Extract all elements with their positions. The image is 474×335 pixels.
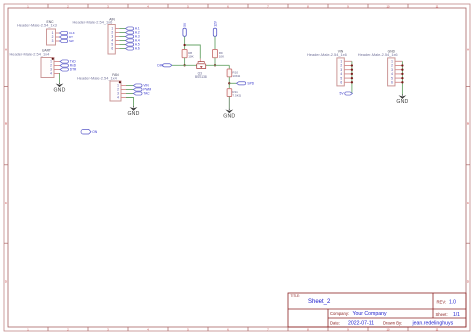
wire VIN bus bbox=[351, 61, 353, 93]
svg-text:Header-Male-2.54_1x6: Header-Male-2.54_1x6 bbox=[73, 20, 113, 25]
svg-text:Header-Male-2.54_1x3: Header-Male-2.54_1x3 bbox=[17, 23, 57, 28]
power port 5V bbox=[183, 22, 187, 36]
net flag DT bbox=[60, 35, 74, 39]
svg-text:A: A bbox=[467, 48, 469, 52]
ground GND (divider) bbox=[223, 109, 235, 120]
wire 5V rail to gate bbox=[185, 45, 201, 59]
net flag A.6 bbox=[126, 47, 140, 51]
resistor R10 bbox=[227, 69, 241, 78]
junction LV node bbox=[183, 64, 185, 66]
svg-text:GND: GND bbox=[128, 111, 140, 117]
junction VIN pin bbox=[351, 69, 353, 71]
net flag DTR bbox=[60, 68, 77, 72]
svg-text:DIR: DIR bbox=[157, 64, 163, 68]
svg-text:3: 3 bbox=[52, 39, 54, 43]
net flag PWM bbox=[133, 88, 151, 92]
svg-text:10K: 10K bbox=[219, 54, 225, 58]
wire bbox=[119, 40, 125, 42]
svg-text:REV:: REV: bbox=[437, 300, 447, 305]
junction VIN pin bbox=[351, 77, 353, 79]
net flag A.4 bbox=[126, 39, 140, 43]
svg-text:GND: GND bbox=[396, 99, 408, 105]
ground GND (header) bbox=[396, 95, 408, 106]
connector UART (Header-Male 2.54) bbox=[10, 49, 61, 78]
resistor R8 bbox=[182, 50, 195, 59]
net flag A.3 bbox=[126, 35, 140, 39]
resistor R9 bbox=[213, 50, 226, 59]
junction GND pin bbox=[401, 77, 403, 79]
svg-text:A: A bbox=[5, 48, 7, 52]
net flag SPD bbox=[237, 82, 255, 86]
ground GND (FAN) bbox=[128, 106, 140, 117]
junction GND pin bbox=[401, 73, 403, 75]
svg-text:DTR: DTR bbox=[70, 68, 77, 72]
svg-text:B: B bbox=[467, 122, 469, 126]
wire bbox=[119, 36, 125, 38]
svg-text:ON: ON bbox=[92, 130, 98, 134]
svg-text:Header-Male-2.54_1x6: Header-Male-2.54_1x6 bbox=[358, 52, 398, 57]
junction VIN pin bbox=[351, 64, 353, 66]
wire bbox=[119, 32, 125, 34]
junction divider bbox=[228, 82, 230, 84]
svg-text:Company:: Company: bbox=[330, 311, 349, 316]
net flag A.5 bbox=[126, 43, 140, 47]
net flag DIR bbox=[157, 64, 172, 68]
junction VIN pin bbox=[351, 73, 353, 75]
wire 12V rail down bbox=[214, 36, 216, 49]
connector AIN (Header-Male 2.54) bbox=[73, 18, 120, 54]
wire divider to SPD flag bbox=[229, 82, 236, 84]
net flag CLK bbox=[60, 31, 75, 35]
net flag ON bbox=[81, 129, 98, 134]
svg-text:Your Company: Your Company bbox=[353, 311, 388, 317]
title block bbox=[288, 293, 466, 327]
connector VIN (Header-Male 2.54) bbox=[307, 49, 352, 86]
svg-text:2022-07-11: 2022-07-11 bbox=[348, 320, 374, 326]
wire LV node bbox=[172, 64, 197, 66]
wire bbox=[119, 44, 125, 46]
svg-text:GND: GND bbox=[54, 87, 66, 93]
svg-text:1.0: 1.0 bbox=[449, 300, 456, 306]
wire 5V rail down bbox=[184, 36, 186, 49]
junction 5V/gate bbox=[183, 44, 185, 46]
wire R10 to divider node bbox=[228, 77, 230, 89]
svg-text:Header-Male-2.54_1x4: Header-Male-2.54_1x4 bbox=[10, 51, 51, 56]
net flag A.1 bbox=[126, 27, 140, 31]
svg-text:7.5KΩ: 7.5KΩ bbox=[232, 94, 241, 98]
connector FAN (Header-Male 2.54) bbox=[77, 73, 126, 101]
svg-text:4: 4 bbox=[50, 72, 52, 76]
net flag TAC bbox=[133, 92, 150, 96]
wire bbox=[126, 93, 133, 95]
svg-text:4: 4 bbox=[117, 96, 119, 100]
wire bbox=[119, 48, 125, 50]
resistor R11 bbox=[227, 89, 242, 98]
svg-text:Header-Male-2.54_1x4: Header-Male-2.54_1x4 bbox=[77, 76, 118, 81]
junction HV node bbox=[214, 64, 216, 66]
connector ENC (Header-Male 2.54) bbox=[17, 20, 60, 45]
net flag TxD bbox=[60, 60, 76, 64]
power port 12V bbox=[213, 20, 217, 36]
svg-text:Drawn By:: Drawn By: bbox=[383, 320, 402, 325]
svg-text:1/1: 1/1 bbox=[453, 312, 460, 318]
svg-text:BSS138: BSS138 bbox=[195, 75, 207, 79]
ground GND (UART) bbox=[54, 83, 66, 94]
svg-text:SW: SW bbox=[69, 39, 74, 43]
svg-text:12V: 12V bbox=[213, 20, 217, 27]
svg-text:6: 6 bbox=[391, 80, 393, 84]
wire HV node to R10 bbox=[228, 65, 230, 69]
net flag RxD bbox=[60, 64, 77, 68]
svg-text:B: B bbox=[5, 122, 7, 126]
svg-text:TITLE:: TITLE: bbox=[291, 294, 301, 298]
svg-text:6: 6 bbox=[340, 80, 342, 84]
svg-text:10K: 10K bbox=[188, 54, 194, 58]
wire bbox=[126, 89, 133, 91]
svg-text:Date:: Date: bbox=[330, 320, 340, 325]
junction GND pin bbox=[401, 81, 403, 83]
wire bbox=[126, 85, 133, 87]
svg-text:TAC: TAC bbox=[143, 92, 150, 96]
svg-text:SPD: SPD bbox=[247, 82, 254, 86]
svg-text:6: 6 bbox=[111, 47, 113, 51]
svg-text:10KΩ: 10KΩ bbox=[232, 74, 241, 78]
junction GND pin bbox=[401, 69, 403, 71]
wire UART pin4 to ground bbox=[58, 74, 61, 83]
net flag SW bbox=[60, 39, 74, 43]
connector GND (Header-Male 2.54) bbox=[358, 49, 403, 86]
net flag A.2 bbox=[126, 31, 140, 35]
svg-text:GND: GND bbox=[223, 113, 235, 119]
net flag 5V bbox=[340, 92, 353, 96]
svg-text:Sheet:: Sheet: bbox=[436, 312, 448, 317]
wire bbox=[119, 28, 125, 30]
wire R8 to source node bbox=[184, 58, 186, 66]
junction GND pin bbox=[401, 64, 403, 66]
transistor Q1 BSS138 (MOSFET) bbox=[195, 59, 207, 80]
wire GND bus bbox=[401, 61, 403, 94]
svg-text:jean.redelinghuys: jean.redelinghuys bbox=[412, 320, 454, 326]
wire R11 to ground bbox=[228, 97, 230, 109]
net flag VIN bbox=[133, 84, 149, 88]
svg-text:Sheet_2: Sheet_2 bbox=[308, 299, 331, 305]
wire R9 to drain node bbox=[214, 58, 216, 66]
junction VIN pin bbox=[351, 81, 353, 83]
wire FAN pin4 to ground bbox=[126, 98, 134, 107]
svg-text:A.6: A.6 bbox=[135, 47, 140, 51]
wire HV node bbox=[206, 64, 230, 66]
svg-text:Header-Male-2.54_1x6: Header-Male-2.54_1x6 bbox=[307, 52, 347, 57]
